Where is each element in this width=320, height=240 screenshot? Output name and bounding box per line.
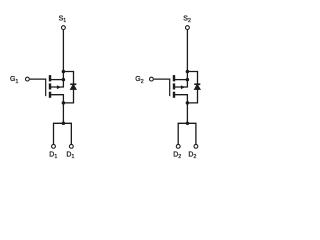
svg-text:D1: D1: [66, 152, 74, 161]
svg-text:D1: D1: [49, 152, 57, 161]
svg-text:G1: G1: [10, 76, 18, 85]
svg-text:D2: D2: [173, 152, 181, 161]
svg-text:S2: S2: [183, 16, 191, 25]
svg-text:G2: G2: [135, 76, 143, 85]
svg-text:S1: S1: [59, 16, 67, 25]
svg-text:D2: D2: [188, 152, 196, 161]
